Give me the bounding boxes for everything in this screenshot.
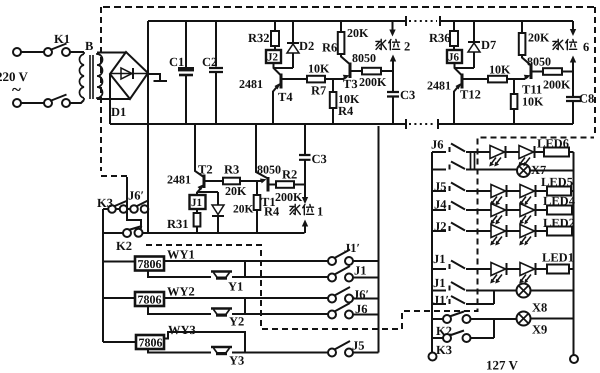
switch K1 upper pole xyxy=(44,48,52,56)
svg-text:D1: D1 xyxy=(111,105,126,119)
switch J2 (panel) xyxy=(432,223,491,232)
switch J1 (X8 row) xyxy=(432,282,517,291)
relay contact J6prime xyxy=(328,295,336,303)
dashed enclosure right border xyxy=(594,7,596,135)
wire 7806-3 to speaker Y3 xyxy=(148,349,211,353)
switch J5 (panel) xyxy=(432,183,491,192)
wire T1 collector from rail xyxy=(256,124,268,179)
transistor T2 xyxy=(203,175,206,189)
svg-text:J1: J1 xyxy=(433,276,446,290)
svg-text:J6: J6 xyxy=(355,302,368,316)
panel right terminal xyxy=(570,355,578,363)
svg-text:127 V: 127 V xyxy=(486,358,519,373)
svg-text:R31: R31 xyxy=(167,217,189,231)
bridge rectifier D1 xyxy=(110,52,148,99)
svg-text:C2: C2 xyxy=(202,55,217,69)
switch K2 (left) xyxy=(123,229,131,237)
wire 7806-2 to speaker Y2 xyxy=(148,306,211,314)
dashed enclosure left border xyxy=(101,7,127,176)
ground symbol xyxy=(149,74,167,81)
wire bridge plus riser (to top rail and down to K-switch rail) xyxy=(147,21,149,233)
wire contact tap to K2 xyxy=(127,177,141,229)
svg-text:K1: K1 xyxy=(54,32,70,46)
svg-text:T2: T2 xyxy=(198,163,213,177)
resistor 20K (block B) xyxy=(522,21,530,65)
svg-text:J1: J1 xyxy=(354,264,367,278)
resistor 10K (block B vertical) xyxy=(513,79,515,124)
panel right rail xyxy=(573,152,575,355)
svg-text:2: 2 xyxy=(404,40,410,54)
capacitor C3 (block A) xyxy=(392,71,394,124)
svg-text:J6: J6 xyxy=(431,138,444,152)
switch row K3 / J6prime xyxy=(108,205,116,213)
resistor R4 20K (middle, vertical) xyxy=(256,181,258,233)
resistor R36 xyxy=(453,21,455,50)
LED pair row J5 xyxy=(491,185,506,198)
water level 2 probe arrows xyxy=(392,21,394,30)
svg-text:7806: 7806 xyxy=(139,336,163,350)
wire T12 base xyxy=(464,78,489,80)
svg-text:8050: 8050 xyxy=(527,55,551,69)
svg-text:8050: 8050 xyxy=(352,51,376,65)
wire K3 to X9 row xyxy=(493,319,495,338)
relay coil J2 xyxy=(266,50,281,63)
svg-text:J6′: J6′ xyxy=(128,189,144,203)
middle +V rail (K2 row) xyxy=(143,232,305,234)
svg-text:7806: 7806 xyxy=(138,293,162,307)
resistor R2 200K xyxy=(276,181,294,188)
svg-text:200K: 200K xyxy=(543,78,571,92)
label water-level 2 xyxy=(376,39,386,49)
svg-text:T3: T3 xyxy=(343,77,358,91)
wire T12 emitter to bottom rail xyxy=(453,91,455,124)
switch K3 (panel) xyxy=(432,337,443,339)
wire 7806-1 to speaker Y1 xyxy=(148,271,211,278)
svg-text:K3: K3 xyxy=(436,343,452,357)
relay coil J1 xyxy=(190,195,206,209)
svg-text:WY1: WY1 xyxy=(167,248,195,262)
LED pair row J1 xyxy=(491,263,506,276)
svg-text:R6: R6 xyxy=(322,41,337,55)
wire secondary to bridge xyxy=(97,53,130,100)
rail break ticks and dots (bottom) xyxy=(406,119,438,129)
svg-text:2481: 2481 xyxy=(427,79,451,93)
wire T4 base xyxy=(283,78,308,80)
label water-level 6 xyxy=(553,39,563,49)
transformer B primary winding xyxy=(79,52,84,100)
svg-text:6: 6 xyxy=(583,40,589,54)
diode D7 xyxy=(455,21,474,68)
svg-text:LED2: LED2 xyxy=(543,216,575,230)
svg-text:20K: 20K xyxy=(225,184,247,198)
lamp X7 xyxy=(517,164,530,177)
speaker Y1 xyxy=(211,270,232,272)
svg-text:J2: J2 xyxy=(267,52,279,64)
resistor LED6 xyxy=(544,148,569,157)
wire T2 emitter to relay J1 xyxy=(196,192,198,195)
terminal circles 220V input xyxy=(13,48,21,56)
capacitor C8 xyxy=(572,72,574,125)
panel left terminal xyxy=(429,353,437,361)
svg-text:LED4: LED4 xyxy=(543,194,576,208)
svg-text:X9: X9 xyxy=(532,323,547,337)
relay coil J6 xyxy=(447,50,462,63)
svg-text:R32: R32 xyxy=(248,31,270,45)
relay contact J5 xyxy=(328,349,336,357)
svg-text:C3: C3 xyxy=(312,152,327,166)
lamp X9 xyxy=(517,312,531,326)
svg-text:K2: K2 xyxy=(116,239,132,253)
transistor T12 xyxy=(455,63,463,76)
relay contact J1 xyxy=(328,274,336,282)
panel left rail xyxy=(431,152,433,352)
svg-text:R4: R4 xyxy=(338,104,354,118)
capacitor C3 (middle) xyxy=(304,124,306,197)
svg-text:J5: J5 xyxy=(434,180,447,194)
svg-text:2481: 2481 xyxy=(239,77,263,91)
link WY1/Y1 lines xyxy=(244,261,246,277)
svg-text:LED5: LED5 xyxy=(541,175,573,189)
svg-text:T4: T4 xyxy=(278,90,293,104)
resistor R32 xyxy=(274,21,276,50)
svg-text:Y3: Y3 xyxy=(229,354,244,368)
resistor R31 xyxy=(196,209,198,233)
svg-text:20K: 20K xyxy=(528,31,550,45)
water level 6 probe arrows xyxy=(572,21,574,29)
switch J6 (panel) xyxy=(432,144,490,153)
regulator WY2 7806 xyxy=(103,297,135,299)
resistor 200K (block B) xyxy=(543,68,562,75)
speaker Y3 xyxy=(211,346,232,348)
svg-text:WY3: WY3 xyxy=(168,323,196,337)
svg-text:2481: 2481 xyxy=(167,173,191,187)
capacitor C2 xyxy=(215,21,217,124)
bottom rail (top section) xyxy=(110,123,573,125)
switch K2 (panel) xyxy=(432,318,443,320)
svg-text:J1: J1 xyxy=(191,197,202,209)
arrow into T11 xyxy=(524,77,528,79)
label water-level 1 xyxy=(290,204,300,214)
svg-text:B: B xyxy=(85,39,93,53)
flyback diode (J1) xyxy=(198,192,218,233)
switch J4 (panel) xyxy=(432,202,491,211)
svg-text:T12: T12 xyxy=(460,88,481,102)
resistor R6 20K xyxy=(341,21,349,64)
svg-text:20K: 20K xyxy=(347,26,369,40)
lamp X8 xyxy=(517,284,531,298)
regulator WY3 7806 xyxy=(103,341,136,343)
resistor LED4 xyxy=(547,206,572,215)
wire T2 base xyxy=(206,180,224,182)
svg-text:200K: 200K xyxy=(275,190,303,204)
wire J1prime to X8 row xyxy=(493,291,495,305)
resistor LED5 xyxy=(547,187,571,196)
arrow into T1 xyxy=(260,179,267,184)
switch J1 (panel LED row) xyxy=(432,261,491,270)
diode D2 xyxy=(274,21,293,68)
switch K1 lower pole xyxy=(44,99,52,107)
svg-text:C8: C8 xyxy=(579,92,594,106)
svg-text:R4: R4 xyxy=(264,205,280,219)
wire T4 emitter to bottom rail xyxy=(272,91,274,124)
dashed enclosure top border xyxy=(103,6,595,8)
capacitor C1 xyxy=(185,21,187,124)
svg-text:J1′: J1′ xyxy=(344,241,360,255)
contact common bus xyxy=(378,126,380,353)
svg-text:R3: R3 xyxy=(224,163,239,177)
svg-text:R7: R7 xyxy=(311,84,326,98)
resistor 200K (block A) xyxy=(362,68,381,75)
svg-text:J6: J6 xyxy=(448,52,460,64)
arrow into T3 xyxy=(343,77,347,79)
svg-text:C1: C1 xyxy=(169,55,184,69)
svg-text:LED6: LED6 xyxy=(537,137,569,151)
resistor 10K (block B horizontal) xyxy=(488,76,507,83)
svg-text:D2: D2 xyxy=(299,39,314,53)
svg-text:1: 1 xyxy=(317,205,323,219)
svg-text:WY2: WY2 xyxy=(167,285,195,299)
svg-text:7806: 7806 xyxy=(138,257,162,271)
link J6 row to X7 row xyxy=(471,152,475,170)
switch (X7 row) xyxy=(432,162,517,170)
resistor LED1 xyxy=(547,265,569,274)
svg-text:Y1: Y1 xyxy=(228,280,243,294)
relay contact J1prime xyxy=(328,257,336,265)
svg-text:20K: 20K xyxy=(233,204,254,216)
svg-text:D7: D7 xyxy=(481,38,496,52)
transistor T1 xyxy=(267,177,270,192)
svg-text:J4: J4 xyxy=(434,198,447,212)
link WY2/Y2 lines xyxy=(244,298,246,314)
svg-text:J1: J1 xyxy=(433,252,446,266)
LED pair row J4 xyxy=(491,204,506,217)
transistor T3 xyxy=(349,63,352,79)
svg-text:J1′: J1′ xyxy=(433,293,449,307)
wire bridge minus to bottom rail xyxy=(109,74,111,124)
svg-text:10K: 10K xyxy=(489,63,511,77)
svg-text:X8: X8 xyxy=(532,301,547,315)
transformer B secondary winding xyxy=(97,53,103,99)
svg-text:10K: 10K xyxy=(308,62,330,76)
svg-text:R2: R2 xyxy=(282,168,297,182)
svg-text:K3: K3 xyxy=(97,196,113,210)
svg-text:K2: K2 xyxy=(436,324,452,338)
transistor T11 xyxy=(530,64,533,80)
resistor R3 20K xyxy=(223,178,240,185)
svg-text:10K: 10K xyxy=(522,95,544,109)
svg-text:Y2: Y2 xyxy=(229,315,244,329)
resistor R7 10K xyxy=(307,76,325,83)
wire left feed rail xyxy=(103,209,123,342)
svg-text:200K: 200K xyxy=(359,75,387,89)
top supply rail xyxy=(148,20,573,22)
svg-text:J5: J5 xyxy=(352,339,365,353)
dashed panel boundary (middle) xyxy=(146,138,594,330)
switch J1prime (panel) xyxy=(432,296,494,304)
water level 1 probe arrows xyxy=(302,197,308,204)
regulator WY1 7806 xyxy=(103,261,135,263)
relay contact J6 xyxy=(328,311,336,319)
svg-text:8050: 8050 xyxy=(257,163,281,177)
svg-text:~: ~ xyxy=(12,80,21,99)
resistor LED2 xyxy=(547,227,572,236)
svg-text:J2: J2 xyxy=(434,220,447,234)
wire T2 collector from rail xyxy=(195,124,203,177)
resistor R4 10K (vertical) xyxy=(332,79,334,124)
svg-text:J6′: J6′ xyxy=(353,288,369,302)
LED pair row J2 xyxy=(491,225,506,238)
svg-text:LED1: LED1 xyxy=(542,251,574,265)
speaker Y2 xyxy=(211,307,232,309)
transformer B core xyxy=(90,55,93,99)
svg-text:R36: R36 xyxy=(429,31,451,45)
rail break ticks and dots (top) xyxy=(406,16,440,26)
svg-text:C3: C3 xyxy=(400,88,415,102)
LED pair row J6 xyxy=(490,146,505,159)
transistor T4 xyxy=(274,63,282,76)
